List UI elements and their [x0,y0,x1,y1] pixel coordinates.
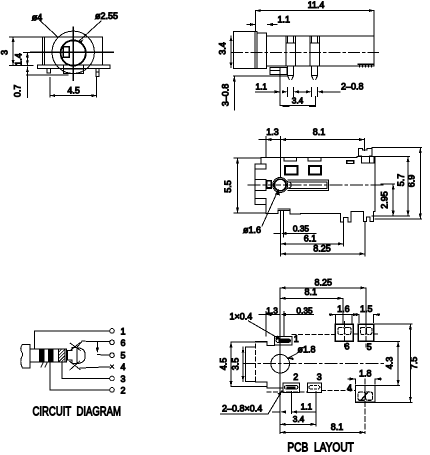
svg-text:1: 1 [294,334,299,344]
svg-text:0.7: 0.7 [12,85,22,98]
svg-text:1.1: 1.1 [301,402,313,412]
dim 6.1 [281,243,344,245]
svg-text:6.1: 6.1 [304,233,317,243]
ticks at 265.8 and 280.6 [266,137,281,143]
dim 3-0.8 line [233,76,235,110]
flange [234,32,258,69]
inner small rect [63,47,69,57]
svg-text:5.7: 5.7 [396,174,406,187]
circle outer [273,178,288,193]
pin hole 2 [309,166,321,175]
band 1 [39,349,44,362]
dim 3.4 bottom pcb [280,423,316,425]
bottom profile left [266,204,340,214]
dim 1.3 [259,314,280,316]
crosshair horizontal [31,51,113,53]
crosshair vertical [72,28,74,81]
collar [72,348,85,364]
pad 6 [335,324,353,341]
dim 11.4 line [256,10,375,12]
right foot midline [96,71,99,73]
footprint outline: dashed left vertical [254,344,256,382]
front foot inner horizontal [270,70,280,72]
foot bottom extension line [27,74,69,76]
pin width arrows [282,90,323,93]
hatched band [59,349,65,362]
cross tab top-right [359,148,372,163]
left foot [47,68,50,73]
svg-text:1.6: 1.6 [337,304,350,314]
terminal 5 [110,353,115,358]
dim 3.4 left (flange height) [230,36,232,68]
plug tip [21,344,30,368]
svg-text:3: 3 [0,50,10,55]
center tab [64,65,84,73]
terminal 3 [110,376,115,381]
outer circle ø4 [52,31,94,73]
label 2-0.8 [323,91,340,93]
pad 1 [274,336,292,345]
dim 7.5 right [409,324,411,403]
svg-text:3: 3 [317,372,322,382]
dim 3 ext bottom [10,64,34,66]
dim 3.5 left [242,347,244,381]
centerline horizontal [243,363,385,365]
svg-text:8.25: 8.25 [313,243,331,253]
wire 4 [80,367,110,368]
slot [288,180,328,190]
svg-text:3.5: 3.5 [230,358,240,371]
svg-text:8.25: 8.25 [315,277,333,287]
svg-text:1×0.4: 1×0.4 [230,312,253,322]
svg-text:5: 5 [367,342,372,352]
pin1 below body [288,66,294,79]
dim 11.4 ext left [255,11,257,31]
dim 1.6 above pad6 [335,314,351,316]
wire 5 [97,341,109,355]
label ø1.6 leader [262,190,278,226]
svg-text:PCB LAYOUT: PCB LAYOUT [287,441,354,455]
dim 5.5 [237,158,239,213]
svg-text:ø2.55: ø2.55 [95,11,118,21]
svg-text:3: 3 [121,374,126,384]
dim 0.35 [274,232,316,234]
center tab inner line [64,68,84,70]
dim 8.25 top [280,287,366,289]
svg-text:4: 4 [121,362,126,372]
dim 1.4 line [26,52,28,65]
ext 265.8 [265,140,267,158]
svg-text:CIRCUIT DIAGRAM: CIRCUIT DIAGRAM [33,405,122,419]
terminal 2 [110,388,115,393]
dim 1.8 above pad4 [348,378,382,380]
svg-text:1.8: 1.8 [359,368,372,378]
terminal 1 [110,329,115,334]
svg-text:8.1: 8.1 [313,127,326,137]
pad 3 [307,383,321,393]
dim 3.4 bottom bracket [280,97,315,106]
svg-text:5.5: 5.5 [223,180,233,193]
band 2 [48,349,53,362]
X mark bottom [70,361,81,370]
front block [257,33,266,68]
svg-text:6: 6 [345,342,350,352]
svg-text:7.5: 7.5 [409,357,419,370]
dim 2.95 [392,184,394,216]
pin hole 1 [285,166,297,175]
svg-text:1.5: 1.5 [360,304,373,314]
pad 4 [356,386,376,403]
pad 5 [358,324,374,341]
svg-text:1.3: 1.3 [266,127,279,137]
top edge right portion under tab [357,156,375,158]
dim 3 line [12,37,14,65]
pad 4 inner shape [358,392,366,400]
right ext lines [372,148,422,220]
pin2 channel [310,36,320,66]
left edge between tabs [254,169,256,199]
svg-text:1.4: 1.4 [13,53,23,66]
svg-text:3.4: 3.4 [217,42,227,55]
dim 4.5 ext right [96,77,98,97]
serrated bottom right pad [358,64,374,67]
small square left of circle [267,181,272,188]
svg-text:1: 1 [121,326,126,336]
dim 8.1 bottom [280,431,365,433]
ext 280.6 [280,140,282,177]
terminal 4 x-mark [110,365,113,368]
svg-text:8.1: 8.1 [331,422,344,432]
ear box [245,347,255,381]
svg-text:2–0.8: 2–0.8 [341,81,364,91]
pad 1 slot [276,339,290,343]
ext verticals below [281,211,284,257]
svg-text:ø1.6: ø1.6 [243,225,261,235]
front foot [270,68,287,75]
svg-text:1.1: 1.1 [256,81,268,91]
flange inner line [254,32,256,69]
dim 0.7 line [26,67,28,97]
svg-text:0.35: 0.35 [293,224,310,234]
barrel band lines [255,179,266,190]
svg-text:0.35: 0.35 [296,306,313,316]
centerline [232,51,379,53]
wire 5 arrow [96,348,99,353]
X mark top [70,343,80,351]
svg-text:4: 4 [347,383,352,393]
body rectangle [43,37,103,65]
circle inner [274,179,286,191]
wire 6 [77,341,110,348]
leader ø2.55 with arrow [79,21,102,42]
pad3 slot center ext [315,391,317,425]
svg-text:5: 5 [121,351,126,361]
neck [67,349,73,362]
dim 3 ext top [10,36,43,38]
dim 11.4 ext right [373,11,375,36]
dim 5.7 [407,157,409,217]
dashed pad3-pad4 link [321,389,355,391]
dim 1.1 top arrows [247,23,256,26]
slash ticks [41,362,48,367]
dashed top edge [292,333,377,336]
svg-text:2: 2 [121,385,126,395]
svg-text:11.4: 11.4 [308,0,325,10]
pin2 below body [312,66,318,79]
dim 4.5 ext left [49,77,51,97]
svg-text:8.1: 8.1 [305,287,318,297]
right foot [96,68,99,76]
pin1 channel [286,36,296,66]
bottom strip [38,65,110,68]
dim 4.5 line [50,95,97,97]
leader ø4 [40,20,59,37]
main vertical extension through circle center [279,288,281,434]
body outline [261,157,375,211]
front foot inner vertical [279,68,281,75]
svg-text:4.5: 4.5 [67,85,80,95]
pad2 slot center ext [291,391,293,413]
ext through foot [279,74,281,97]
vent rect [347,161,354,164]
centerline [248,184,385,186]
pad 2 [283,383,300,393]
svg-text:2.95: 2.95 [380,191,390,209]
terminal 6 [110,340,115,345]
svg-text:4.3: 4.3 [384,357,394,370]
wire 3 [62,362,110,379]
top notch 1 [284,157,297,161]
svg-text:4.5: 4.5 [219,358,229,371]
ext 364.4 [363,139,365,151]
svg-text:1.1: 1.1 [278,14,291,24]
dim 8.1 top [280,297,343,299]
svg-text:3.4: 3.4 [292,95,304,105]
shaft outline [30,344,67,368]
top notch 2 [308,157,321,161]
left upper tab [255,164,266,169]
pin edge droplines [288,88,318,97]
dim 4.5 left [230,342,232,387]
dim 0.35 [273,314,313,316]
wire 1 [35,331,110,349]
pad4 center vertical [364,379,366,434]
dim 1.5 above pad5 [353,314,380,316]
body left inner line [44,37,46,65]
dim 8.25 [281,253,365,255]
svg-text:2–0.8×0.4: 2–0.8×0.4 [222,403,262,413]
dashed bottom edge [267,391,308,393]
bottom steps left of pad2 [255,382,283,388]
svg-text:2: 2 [293,372,298,382]
dim 1.4 ext [24,51,34,53]
dim 1.1 bottom pcb [273,411,316,413]
main body [266,36,374,66]
dim 4.3 right [397,341,399,385]
bottom feet tabs [341,212,375,222]
wire 2 [50,362,109,390]
left lower tab [255,199,266,205]
dim 6.9 [419,148,421,220]
foot bottom ext line [234,75,288,77]
footprint outline: top steps left of pad1 [255,342,274,346]
svg-text:6: 6 [121,338,126,348]
hole circle ø1.8 [271,354,290,373]
svg-text:3.4: 3.4 [293,414,305,424]
inner circle ø2.55 [61,40,86,65]
small rect right of stem [369,157,374,163]
dim 1.3/8.1 line [259,139,364,141]
dim 1.1 bottom [256,91,281,93]
svg-text:3–0.8: 3–0.8 [220,84,230,107]
svg-text:ø1.8: ø1.8 [298,345,316,355]
